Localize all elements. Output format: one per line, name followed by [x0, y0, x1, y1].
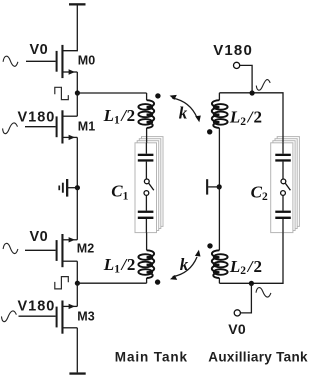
svg-text:V0: V0 [30, 42, 49, 58]
svg-text:k: k [180, 255, 189, 274]
inductor L2/2 bottom (aux tank) [212, 250, 228, 283]
capacitor bank C1 internals [138, 143, 154, 233]
node B junction dot [75, 281, 80, 286]
capacitor bank C2 internals [275, 143, 291, 233]
svg-text:V0: V0 [30, 229, 49, 245]
aux center tap node [217, 184, 222, 189]
inductor L1/2 top (main tank) [138, 93, 154, 143]
sine source symbol (V180, M1) [3, 123, 18, 134]
sine source symbol (V0, M0) [3, 56, 18, 66]
transistor M0 [26, 45, 95, 78]
svg-text:Auxilliary Tank: Auxilliary Tank [208, 349, 308, 364]
ground bar bottom [69, 372, 85, 374]
sine symbol (aux top) [256, 80, 270, 91]
C2 switched-capacitor box (3D stack) [271, 137, 300, 233]
V0 source terminal (aux bottom) [228, 283, 251, 337]
wire M3 source to ground [76, 328, 78, 373]
sine symbol (aux bottom) [256, 288, 271, 297]
square-wave phase glyph (node B) [55, 277, 69, 289]
transistor M1 [25, 110, 95, 143]
aux tap bar (single-bar ground) [206, 179, 219, 194]
junction dot (V180 feed) [250, 90, 255, 95]
wire mid node to M2 drain [76, 188, 78, 240]
svg-text:k: k [179, 104, 188, 123]
transistor M2 [25, 234, 94, 267]
svg-text:V180: V180 [18, 299, 56, 315]
svg-text:Main Tank: Main Tank [115, 349, 188, 364]
svg-text:M0: M0 [78, 54, 95, 68]
wire aux tap to L2/2 bottom [218, 187, 220, 250]
polarity dot (L2/2 bottom) [207, 243, 212, 248]
polarity dot (L1/2 top) [155, 93, 160, 98]
junction dot (V0 feed) [249, 281, 254, 286]
wire node B to main tank bottom [77, 282, 146, 284]
wire M2 source to node B [76, 261, 78, 283]
polarity dot (L1/2 bottom) [155, 279, 160, 284]
svg-text:M3: M3 [77, 310, 94, 324]
V180 source terminal (aux top) [213, 42, 253, 93]
svg-text:V180: V180 [18, 109, 56, 125]
svg-text:M2: M2 [77, 241, 94, 255]
C1 switched-capacitor box (3D stack) [135, 137, 163, 233]
polarity dot (L2/2 top) [207, 129, 212, 134]
wire M1 source to mid node [76, 137, 78, 187]
wire M1 drain to node A [76, 93, 78, 116]
sine source symbol (V0, M2) [3, 243, 18, 253]
wire M0 source to node A [76, 72, 78, 93]
coupling arrow k top [170, 95, 201, 123]
mid node junction dot [75, 185, 80, 190]
node A junction dot [75, 90, 80, 95]
coupling arrow k bottom [170, 250, 201, 280]
svg-text:V180: V180 [213, 42, 253, 59]
svg-text:M1: M1 [78, 120, 95, 134]
inductor L1/2 bottom (main tank) [138, 233, 154, 284]
transistor M3 [19, 301, 95, 334]
aux tank bottom wire [219, 233, 283, 284]
wire node A to main tank top [77, 92, 146, 94]
wire node B to M3 drain [76, 283, 78, 306]
square-wave phase glyph (node A) [55, 87, 69, 99]
power rail top bar [69, 3, 86, 5]
wire VDD to M0 drain [63, 6, 77, 51]
ground (left, 3-bar) [58, 179, 77, 197]
svg-text:V0: V0 [228, 321, 246, 337]
inductor L2/2 top (aux tank) [212, 93, 228, 187]
sine source symbol (V180, M3) [2, 311, 17, 322]
aux tank top wire [219, 93, 283, 143]
